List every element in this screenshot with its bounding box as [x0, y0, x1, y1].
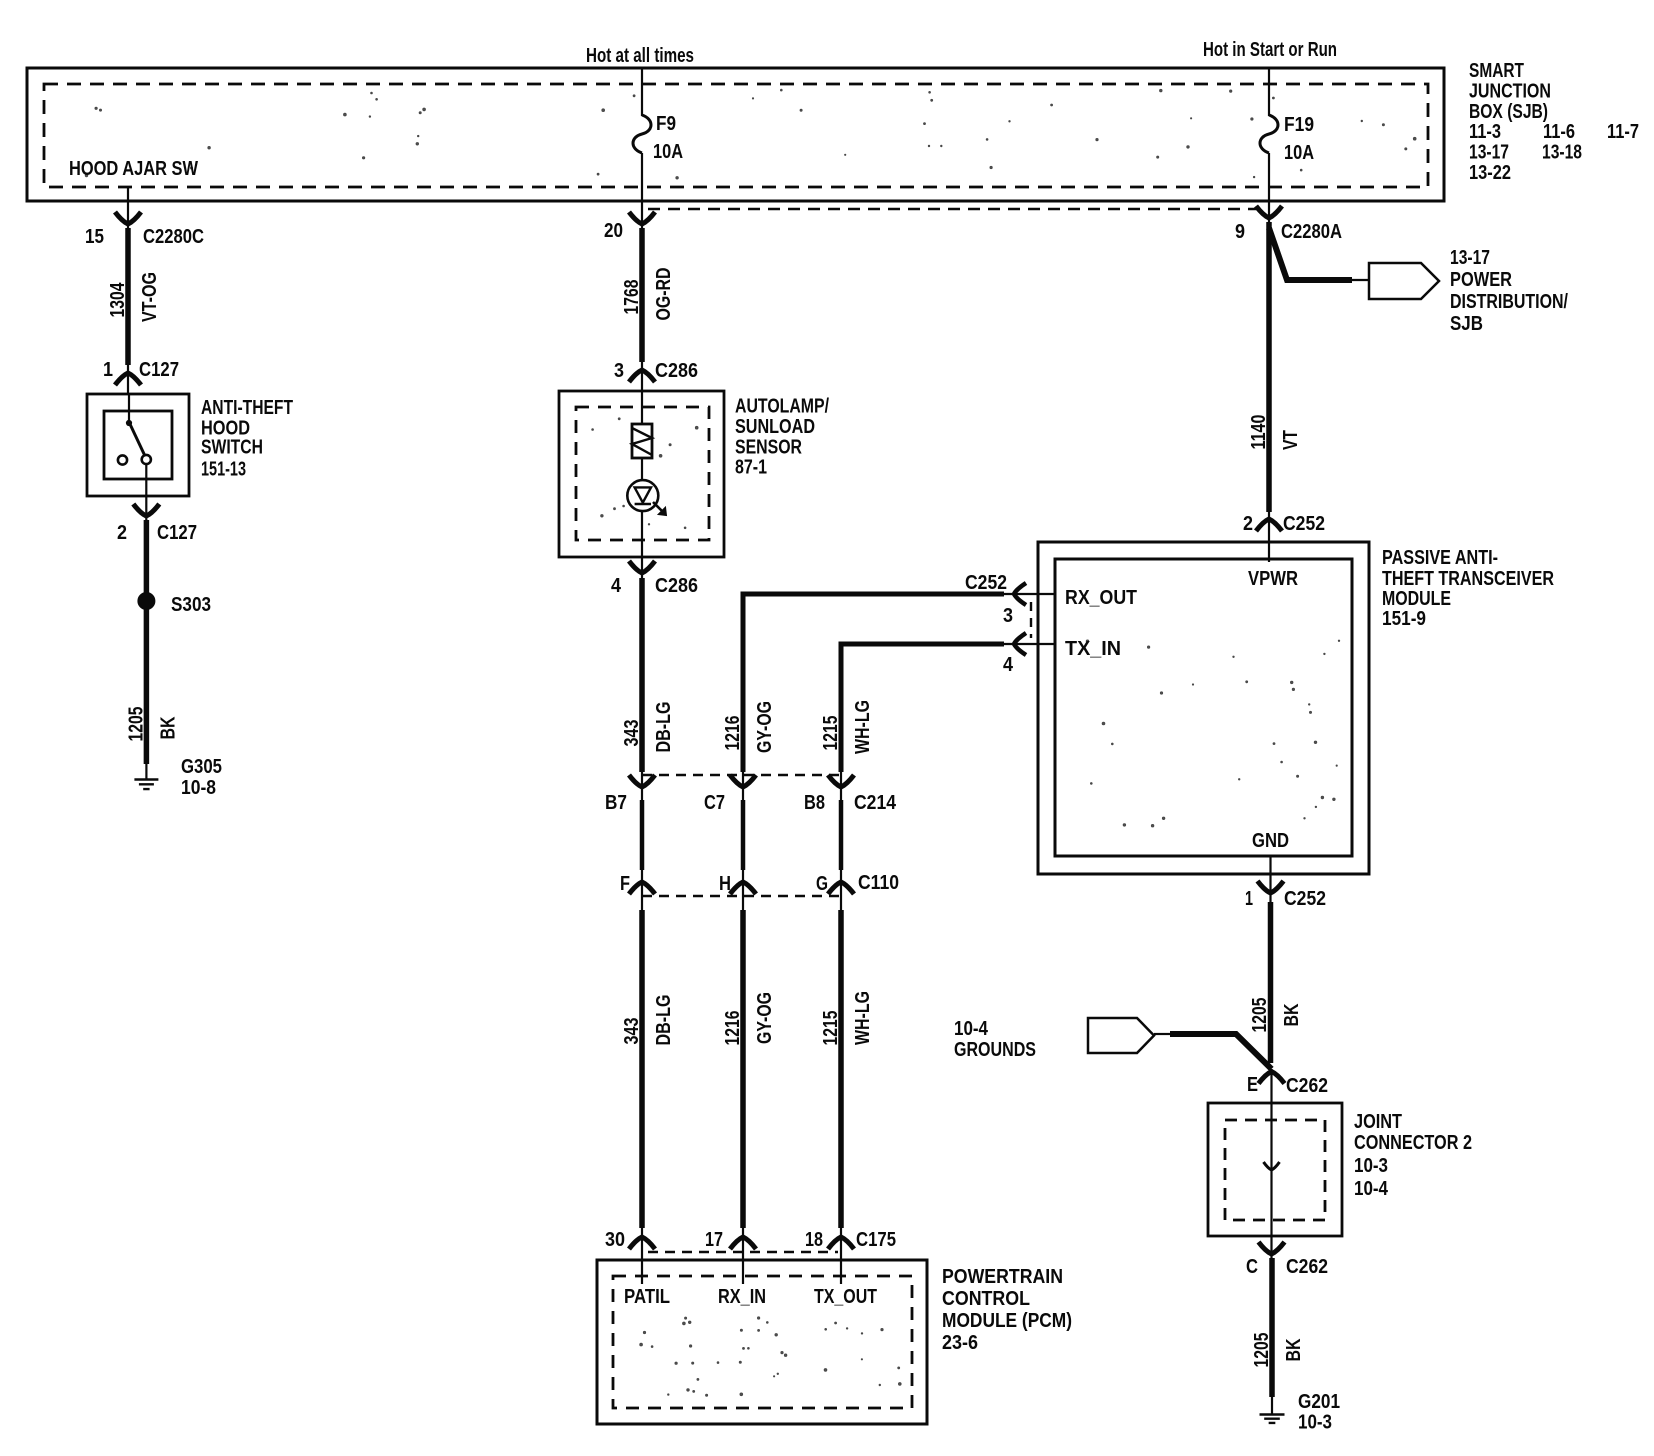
- svg-text:2: 2: [1243, 512, 1253, 535]
- dashed bus line below SJB: [648, 208, 1262, 210]
- svg-text:C127: C127: [157, 521, 197, 544]
- svg-text:1205: 1205: [1250, 1333, 1273, 1368]
- connector arrow C175 pin 18: [828, 1237, 854, 1249]
- connector arrow C252 pin 2: [1256, 519, 1282, 531]
- connector arrow C262 pin E: [1259, 1072, 1285, 1084]
- wire from Hot at all times to fuse F9: [641, 68, 643, 116]
- powertrain control module PCM outer box: [597, 1260, 927, 1424]
- svg-text:C286: C286: [655, 574, 698, 597]
- svg-text:23-6: 23-6: [942, 1331, 978, 1354]
- connector arrow C110 pin F: [629, 882, 655, 894]
- svg-text:C175: C175: [856, 1228, 896, 1251]
- thin lead to power distribution arrow: [1352, 279, 1369, 281]
- svg-text:10-4: 10-4: [954, 1017, 988, 1040]
- smart junction box SJB inner dashed box: [44, 84, 1428, 187]
- svg-text:343: 343: [620, 1018, 643, 1045]
- svg-text:C262: C262: [1286, 1255, 1328, 1278]
- wire into hood switch: [127, 365, 129, 394]
- svg-text:TX_OUT: TX_OUT: [814, 1285, 877, 1308]
- wire sensor to C286 pin 4: [641, 557, 643, 582]
- svg-text:1205: 1205: [1248, 998, 1271, 1033]
- connector arrow C252 pin 1: [1258, 881, 1284, 893]
- PCM label text: [942, 1265, 1072, 1354]
- wire 1216 GY-OG lower: [740, 910, 746, 1228]
- svg-text:3: 3: [1003, 604, 1013, 627]
- svg-text:4: 4: [611, 574, 622, 597]
- svg-text:13-17: 13-17: [1450, 246, 1490, 269]
- passive anti-theft transceiver module inner box: [1055, 559, 1352, 856]
- connector arrow C127 pin 1: [115, 373, 141, 385]
- fuse F9 10A: [633, 115, 651, 153]
- internal arrow in joint connector: [1264, 1162, 1280, 1170]
- svg-text:PATIL: PATIL: [624, 1285, 670, 1308]
- svg-text:CONNECTOR 2: CONNECTOR 2: [1354, 1131, 1472, 1154]
- svg-text:GY-OG: GY-OG: [753, 701, 776, 753]
- module VPWR stub: [1268, 542, 1270, 562]
- svg-text:BK: BK: [1282, 1338, 1305, 1361]
- wire C7 to H: [741, 800, 746, 870]
- connector arrow C252 pin 4: [1014, 633, 1026, 655]
- wire into sunload sensor: [641, 362, 643, 391]
- svg-text:G: G: [816, 872, 828, 895]
- connector arrow C286 pin 3: [629, 370, 655, 382]
- sensor label text: [735, 395, 829, 479]
- connector arrow C214 pin B8: [828, 775, 854, 787]
- switch contact left: [118, 455, 127, 464]
- branch wire to power distribution: [1269, 228, 1352, 280]
- wire 343 lower thin top: [641, 868, 643, 910]
- switch feed wire: [128, 394, 130, 424]
- wire TX_IN 1215 WH-LG horizontal run: [841, 644, 1004, 772]
- svg-text:C286: C286: [655, 359, 698, 382]
- svg-text:C262: C262: [1286, 1074, 1328, 1097]
- connector arrow C214 pin B7: [629, 775, 655, 787]
- branch wire from grounds arrow: [1170, 1034, 1272, 1069]
- svg-text:C110: C110: [858, 871, 899, 894]
- svg-text:SWITCH: SWITCH: [201, 436, 263, 459]
- connector arrow C2280C pin 15: [115, 212, 141, 224]
- svg-text:1140: 1140: [1247, 415, 1270, 450]
- connector arrow SJB pin 20: [629, 212, 655, 224]
- sensor arrow mark: [653, 502, 665, 514]
- svg-text:POWERTRAIN: POWERTRAIN: [942, 1265, 1063, 1288]
- joint connector text block: [1354, 1110, 1472, 1200]
- ground G305: [134, 780, 158, 790]
- svg-text:18: 18: [805, 1228, 823, 1251]
- wire 1215 WH-LG lower: [838, 910, 844, 1228]
- svg-text:S303: S303: [171, 593, 211, 616]
- svg-text:2: 2: [117, 521, 127, 544]
- svg-text:Hot at all times: Hot at all times: [586, 44, 694, 67]
- wire B7 to F: [640, 800, 645, 870]
- wire PATIL stub into PCM: [641, 1237, 643, 1284]
- power distribution text block: [1450, 246, 1568, 335]
- ground G201: [1260, 1415, 1285, 1423]
- svg-text:VPWR: VPWR: [1248, 567, 1298, 590]
- svg-text:151-13: 151-13: [201, 458, 246, 481]
- sensor photodiode: [627, 480, 658, 511]
- dashed connector line C110: [642, 895, 841, 897]
- svg-text:VT: VT: [1279, 430, 1302, 450]
- svg-text:11-7: 11-7: [1607, 120, 1639, 143]
- svg-text:1304: 1304: [106, 282, 129, 317]
- svg-text:DB-LG: DB-LG: [652, 995, 675, 1046]
- svg-text:Hot in Start or Run: Hot in Start or Run: [1203, 38, 1337, 61]
- splice S303: [138, 593, 155, 610]
- wire TX_OUT stub into PCM: [840, 1237, 842, 1284]
- sensor internal wire middle: [641, 458, 643, 480]
- switch label text: [201, 396, 293, 481]
- wire B8 to G: [839, 800, 844, 870]
- svg-text:151-9: 151-9: [1382, 607, 1426, 630]
- svg-text:C127: C127: [139, 358, 179, 381]
- svg-text:20: 20: [604, 219, 623, 242]
- svg-text:1215: 1215: [819, 716, 842, 751]
- joint connector 2 outer box: [1208, 1103, 1342, 1236]
- wire 1304 VT-OG: [125, 228, 131, 365]
- connector arrow C214 pin C7: [730, 775, 756, 787]
- svg-text:C214: C214: [854, 791, 897, 814]
- module label text: [1382, 546, 1554, 630]
- svg-text:JOINT: JOINT: [1354, 1110, 1402, 1133]
- svg-text:GROUNDS: GROUNDS: [954, 1038, 1036, 1061]
- svg-text:4: 4: [1003, 653, 1014, 676]
- wire RX_OUT thin segment into module: [1004, 593, 1056, 595]
- svg-text:VT-OG: VT-OG: [138, 272, 161, 322]
- wire through joint connector 2: [1270, 1103, 1272, 1258]
- connector arrow C110 pin H: [730, 882, 756, 894]
- wire from fuse F19 to SJB pin 9: [1268, 153, 1270, 226]
- svg-text:WH-LG: WH-LG: [851, 700, 874, 754]
- wire 1768 OG-RD: [639, 228, 645, 362]
- fuse F19 10A: [1260, 115, 1278, 153]
- svg-text:10-3: 10-3: [1298, 1411, 1332, 1434]
- connector arrow C127 pin 2: [133, 504, 159, 516]
- svg-text:MODULE (PCM): MODULE (PCM): [942, 1309, 1072, 1332]
- svg-text:BK: BK: [156, 716, 179, 739]
- svg-text:C: C: [1246, 1255, 1258, 1278]
- switch contact right: [142, 455, 151, 464]
- wire RX_OUT 1216 GY-OG horizontal run: [743, 594, 1004, 772]
- svg-text:1216: 1216: [721, 1011, 744, 1046]
- wire C7 to H thin: [742, 770, 744, 800]
- svg-text:C252: C252: [965, 571, 1007, 594]
- svg-text:C7: C7: [704, 791, 725, 814]
- sensor internal wire top: [641, 391, 643, 424]
- svg-text:RX_OUT: RX_OUT: [1065, 586, 1137, 609]
- smart junction box SJB outer box: [27, 68, 1444, 201]
- wire 1216 lower thin top: [742, 868, 744, 910]
- wire RX_IN stub into PCM: [742, 1237, 744, 1284]
- svg-text:OG-RD: OG-RD: [652, 268, 675, 321]
- wire switch to connector C127 pin 2: [145, 464, 147, 524]
- svg-text:G305: G305: [181, 755, 222, 778]
- svg-text:13-22: 13-22: [1469, 161, 1511, 184]
- wire 1140 VT: [1266, 222, 1272, 512]
- wire 1205 BK lower: [1269, 1258, 1275, 1397]
- passive anti-theft transceiver module U1 outer box: [1038, 542, 1369, 874]
- svg-text:HOOD AJAR SW: HOOD AJAR SW: [69, 157, 199, 180]
- svg-text:DISTRIBUTION/: DISTRIBUTION/: [1450, 290, 1568, 313]
- svg-text:GY-OG: GY-OG: [753, 992, 776, 1044]
- svg-text:F9: F9: [656, 112, 676, 135]
- connector arrow C2280A pin 9: [1256, 206, 1282, 218]
- off-page arrow POWER DISTRIBUTION / SJB: [1369, 263, 1439, 299]
- anti-theft hood switch SW outer box: [87, 394, 189, 496]
- connector arrow C175 pin 30: [629, 1237, 655, 1249]
- svg-text:F19: F19: [1284, 113, 1314, 136]
- wire from C127 to splice S303: [144, 520, 150, 594]
- anti-theft hood switch inner box: [104, 411, 172, 479]
- wire 343 DB-LG upper: [639, 578, 645, 772]
- svg-text:3: 3: [614, 359, 624, 382]
- svg-text:30: 30: [605, 1228, 625, 1251]
- svg-text:TX_IN: TX_IN: [1065, 637, 1121, 660]
- sensor resistor element: [632, 424, 652, 458]
- svg-text:SJB: SJB: [1450, 312, 1483, 335]
- connector arrow C110 pin G: [828, 882, 854, 894]
- svg-text:1: 1: [103, 358, 113, 381]
- wire into module VPWR: [1268, 512, 1270, 542]
- wire SJB to connector C2280C: [127, 187, 129, 230]
- sensor internal wire bottom: [641, 511, 643, 557]
- switch blade: [129, 422, 145, 456]
- dashed connector line C214: [642, 774, 841, 776]
- svg-text:GND: GND: [1252, 829, 1289, 852]
- svg-text:13-18: 13-18: [1542, 141, 1582, 164]
- svg-text:1216: 1216: [721, 716, 744, 751]
- dashed connector tie C252: [1030, 602, 1032, 638]
- svg-text:343: 343: [620, 720, 643, 747]
- wire 1205 BK: [144, 608, 150, 764]
- svg-text:C252: C252: [1283, 512, 1325, 535]
- svg-text:CONTROL: CONTROL: [942, 1287, 1030, 1310]
- wire 1216 lower thin bottom: [742, 1228, 744, 1237]
- connector arrow C175 pin 17: [730, 1237, 756, 1249]
- svg-text:10A: 10A: [653, 140, 683, 163]
- wire 1215 lower thin top: [840, 868, 842, 910]
- svg-text:H: H: [719, 872, 731, 895]
- svg-text:1205: 1205: [124, 707, 147, 742]
- wire 343 lower thin bottom: [641, 1228, 643, 1237]
- svg-text:C2280A: C2280A: [1281, 220, 1342, 243]
- svg-text:9: 9: [1235, 220, 1245, 243]
- svg-text:17: 17: [705, 1228, 723, 1251]
- wire to ground G305: [145, 764, 147, 780]
- svg-text:B8: B8: [804, 791, 825, 814]
- svg-text:BK: BK: [1280, 1003, 1303, 1026]
- wire from fuse F9 to SJB pin 20: [641, 153, 643, 230]
- PCM inner dashed box: [613, 1276, 912, 1408]
- grounds text block: [954, 1017, 1036, 1061]
- svg-text:RX_IN: RX_IN: [718, 1285, 766, 1308]
- connector arrow C286 pin 4: [629, 561, 655, 573]
- svg-text:E: E: [1247, 1073, 1258, 1096]
- svg-text:B7: B7: [605, 791, 627, 814]
- svg-text:PASSIVE ANTI-: PASSIVE ANTI-: [1382, 546, 1498, 569]
- off-page arrow GROUNDS: [1088, 1018, 1154, 1053]
- wire 343 DB-LG lower: [639, 910, 645, 1228]
- joint connector 2 inner dashed box: [1225, 1120, 1325, 1220]
- svg-text:POWER: POWER: [1450, 268, 1512, 291]
- svg-text:15: 15: [85, 225, 104, 248]
- svg-text:1768: 1768: [620, 280, 643, 315]
- wire from Hot in Start or Run to fuse F19: [1268, 68, 1270, 116]
- wire TX_IN thin segment into module: [1004, 643, 1056, 645]
- svg-text:F: F: [620, 872, 630, 895]
- svg-text:1215: 1215: [819, 1011, 842, 1046]
- wire into joint connector 2: [1270, 1069, 1272, 1103]
- svg-text:87-1: 87-1: [735, 456, 767, 479]
- svg-text:C2280C: C2280C: [143, 225, 204, 248]
- thin lead from grounds arrow: [1154, 1033, 1170, 1035]
- autolamp sunload sensor inner dashed box: [576, 407, 709, 540]
- wire B7 to F thin: [641, 770, 643, 800]
- scan noise speckles (decorative): [85, 89, 1416, 1396]
- svg-text:1: 1: [1245, 887, 1253, 910]
- wire B8 to G thin: [840, 770, 842, 800]
- wire to ground G201: [1271, 1397, 1273, 1415]
- svg-text:WH-LG: WH-LG: [851, 991, 874, 1045]
- svg-text:DB-LG: DB-LG: [652, 702, 675, 753]
- connector arrow C262 pin C: [1259, 1242, 1285, 1254]
- svg-text:10-3: 10-3: [1354, 1154, 1388, 1177]
- module GND stub: [1269, 856, 1271, 902]
- svg-text:10-8: 10-8: [181, 776, 216, 799]
- dashed connector line C175: [648, 1251, 838, 1253]
- svg-text:C252: C252: [1284, 887, 1326, 910]
- svg-text:10-4: 10-4: [1354, 1177, 1388, 1200]
- svg-text:10A: 10A: [1284, 141, 1314, 164]
- connector arrow C252 pin 3: [1014, 583, 1026, 605]
- SJB reference text block: [1469, 59, 1639, 184]
- wire 1215 lower thin bottom: [840, 1228, 842, 1237]
- wire 1205 BK upper: [1268, 902, 1274, 1063]
- autolamp sunload sensor outer box: [559, 391, 724, 557]
